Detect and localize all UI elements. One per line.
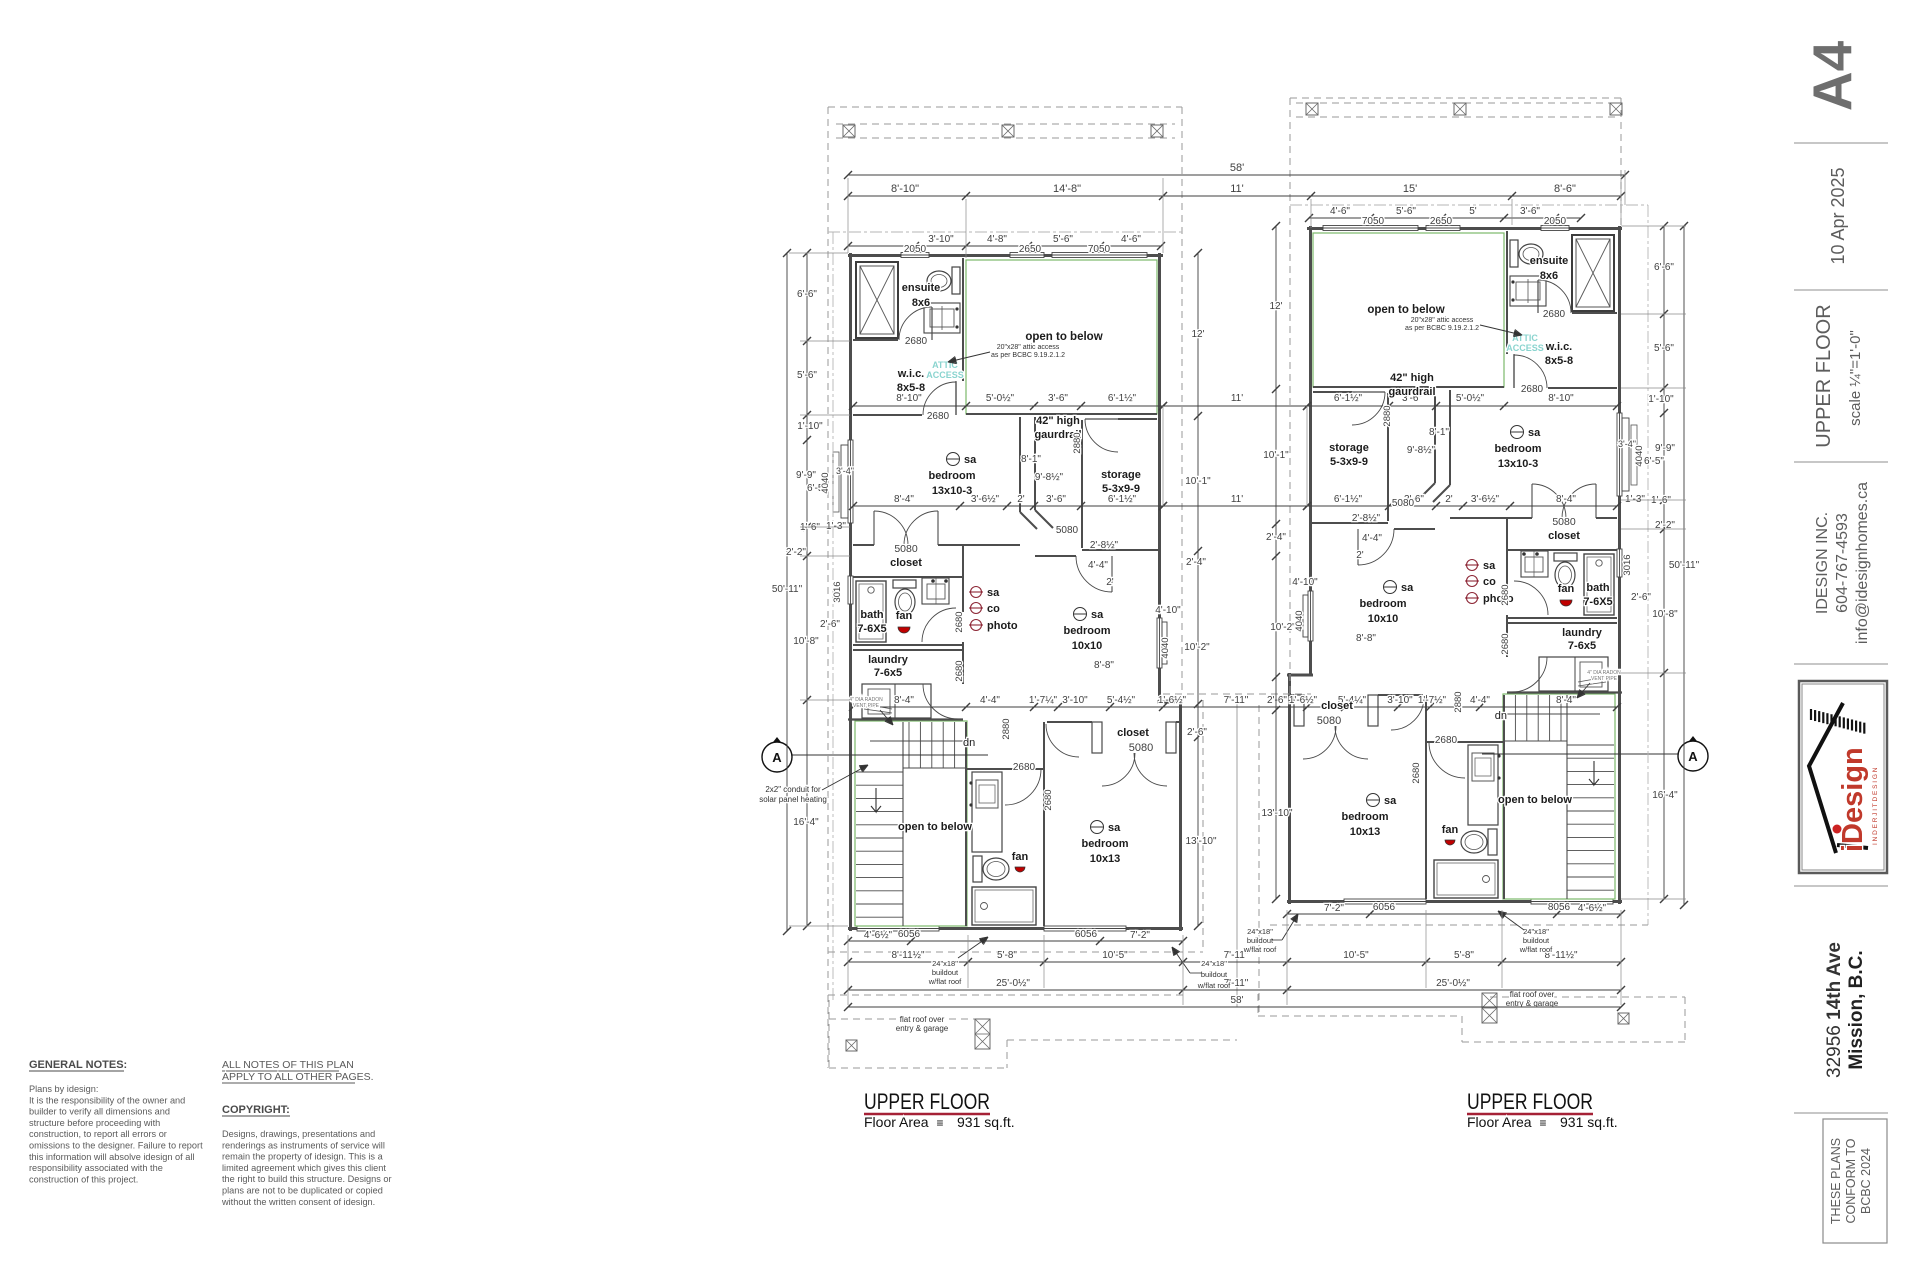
svg-text:2': 2' [1017,494,1025,505]
svg-text:responsibility associated with: responsibility associated with the [29,1163,163,1173]
svg-text:24"x18": 24"x18" [1201,959,1227,968]
dim row 11ft upper [1163,405,1307,407]
svg-text:8'-10": 8'-10" [1548,393,1574,404]
svg-text:2'-4": 2'-4" [1266,532,1286,543]
svg-text:w/flat roof: w/flat roof [1243,945,1277,954]
svg-text:without the written consent of: without the written consent of idesign. [221,1197,375,1207]
svg-text:ACCESS: ACCESS [1506,343,1544,353]
svg-text:ensuite: ensuite [902,282,941,294]
svg-text:10'-8": 10'-8" [1652,609,1678,620]
svg-text:6'-5": 6'-5" [1644,456,1664,467]
svg-text:931 sq.ft.: 931 sq.ft. [957,1114,1015,1130]
svg-text:13x10-3: 13x10-3 [932,485,972,497]
svg-text:sa: sa [1384,795,1397,807]
svg-text:bedroom: bedroom [928,470,975,482]
svg-text:20"x28" attic access: 20"x28" attic access [1411,317,1474,324]
svg-text:2680: 2680 [1013,762,1036,773]
svg-text:4040: 4040 [820,472,831,493]
window top 7050 [1052,253,1147,258]
dim row 11ft lower [1163,505,1307,507]
svg-text:sa: sa [964,454,977,466]
svg-text:8x5-8: 8x5-8 [897,382,925,394]
svg-text:2680: 2680 [1543,309,1566,320]
svg-text:58': 58' [1230,995,1243,1006]
svg-text:closet: closet [1548,530,1580,542]
svg-text:8056: 8056 [1548,902,1571,913]
svg-text:laundry: laundry [1562,627,1603,639]
storage wall top [1118,418,1157,420]
right beam band [1296,102,1616,104]
hall wall right [1034,417,1036,510]
svg-text:builder to verify all dimensio: builder to verify all dimensions and [29,1107,170,1117]
bedroom closet doors [853,544,874,546]
svg-text:VENT PIPE: VENT PIPE [1591,676,1618,682]
svg-text:24"x18": 24"x18" [1247,927,1273,936]
svg-text:A: A [1688,749,1698,764]
svg-text:5'-4½": 5'-4½" [1107,695,1136,706]
svg-text:COPYRIGHT:: COPYRIGHT: [222,1104,290,1116]
svg-text:this information will absolve: this information will absolve idesign of… [29,1152,194,1162]
svg-text:1'-7¼": 1'-7¼" [1029,694,1058,706]
svg-text:4'-4": 4'-4" [1362,533,1382,544]
svg-text:13x10-3: 13x10-3 [1498,458,1538,470]
svg-text:flat roof over: flat roof over [900,1015,945,1024]
stair direction arrow [871,788,881,812]
storage wall left [1081,420,1083,548]
svg-text:3'-4": 3'-4" [1618,439,1636,449]
svg-text:bedroom: bedroom [1341,811,1388,823]
svg-text:6'-1½": 6'-1½" [1108,393,1137,404]
svg-text:15': 15' [1403,183,1417,195]
right beam posts [1306,103,1318,115]
svg-text:closet: closet [890,557,922,569]
svg-text:8'-10": 8'-10" [891,183,919,195]
stair upper flight treads [908,722,910,768]
window right 4040 bedroom2 [1157,618,1162,668]
svg-text:8'-11½": 8'-11½" [891,950,925,961]
dim row left bottom [848,940,1183,942]
svg-text:4040: 4040 [1160,637,1171,658]
svg-text:sa: sa [1108,822,1121,834]
svg-text:buildout: buildout [1201,970,1228,979]
svg-text:ensuite: ensuite [1530,255,1569,267]
storage door [1085,419,1118,452]
window top 2050 [901,253,929,258]
svg-text:10 Apr 2025: 10 Apr 2025 [1828,167,1848,264]
hall wall left [1019,417,1021,512]
dim row left unit windows [848,245,1161,247]
svg-text:2680: 2680 [954,660,965,681]
svg-text:as per BCBC 9.19.2.1.2: as per BCBC 9.19.2.1.2 [1405,325,1479,332]
svg-text:≡: ≡ [1539,1116,1546,1130]
closet bottom wall [853,576,963,578]
svg-text:6056: 6056 [1075,929,1098,940]
window bottom 6056 stair [857,926,939,931]
svg-text:5'-0½": 5'-0½" [986,393,1015,404]
svg-text:10'-2": 10'-2" [1270,622,1296,633]
svg-text:co: co [987,603,1000,615]
svg-text:8'-4": 8'-4" [894,695,914,706]
svg-text:w/flat roof: w/flat roof [1519,945,1553,954]
extension lines right col [1621,225,1686,227]
svg-text:10'-2": 10'-2" [1184,642,1210,653]
laundry walls [962,642,964,650]
svg-text:1'-3": 1'-3" [826,521,846,532]
svg-text:3016: 3016 [1622,554,1633,575]
logo hatch marks [1810,709,1812,720]
svg-text:6'-6": 6'-6" [1654,262,1674,273]
ensuite sink [924,303,960,333]
svg-text:2': 2' [1356,550,1364,561]
bath toilet [893,580,916,588]
svg-text:3'-6½": 3'-6½" [971,494,1000,505]
svg-text:7-6x5: 7-6x5 [874,667,902,679]
svg-text:1'-10": 1'-10" [797,421,823,432]
svg-text:iDesign: iDesign [1837,747,1869,852]
svg-text:renderings as instruments of s: renderings as instruments of service wil… [222,1140,385,1150]
svg-text:A4: A4 [1801,40,1863,111]
svg-text:sa: sa [1483,560,1496,572]
svg-text:open to below: open to below [1367,304,1444,316]
svg-text:13'-10": 13'-10" [1261,808,1292,819]
svg-text:APPLY TO ALL OTHER PAGES.: APPLY TO ALL OTHER PAGES. [222,1071,374,1083]
svg-text:2050: 2050 [1544,216,1567,227]
svg-text:3016: 3016 [832,581,843,602]
svg-text:7050: 7050 [1088,244,1111,255]
svg-text:sa: sa [987,587,1000,599]
svg-text:24"x18": 24"x18" [932,959,958,968]
svg-text:2680: 2680 [1500,633,1511,654]
svg-text:5'-6": 5'-6" [797,370,817,381]
dim col far left 50-11 [786,253,788,931]
dim row y990 [848,989,1621,991]
svg-text:2'-8½": 2'-8½" [1090,540,1119,551]
svg-text:9'-9": 9'-9" [1655,443,1675,454]
svg-text:open to below: open to below [898,821,972,833]
svg-text:A: A [772,750,782,765]
svg-text:storage: storage [1101,469,1141,481]
ensuite toilet [927,271,951,291]
svg-text:5': 5' [1469,206,1477,217]
svg-text:8'-1": 8'-1" [1429,427,1449,438]
stair lower flight treads [856,771,903,773]
svg-text:5'-6": 5'-6" [1396,206,1416,217]
right unit sa co photo legend [1467,560,1478,571]
svg-text:closet: closet [1321,700,1353,712]
svg-text:7'-11": 7'-11" [1224,695,1249,706]
svg-text:UPPER FLOOR: UPPER FLOOR [864,1089,990,1114]
svg-text:4'-6": 4'-6" [1330,206,1350,217]
svg-text:1'-6½": 1'-6½" [1289,695,1318,706]
svg-text:construction, to report all er: construction, to report all errors or [29,1129,167,1139]
svg-text:w/flat roof: w/flat roof [928,977,962,986]
svg-text:4'-4": 4'-4" [1088,560,1108,571]
svg-text:1'-7½": 1'-7½" [1418,695,1447,706]
svg-text:8'-6": 8'-6" [1554,183,1576,195]
svg-text:24"x18": 24"x18" [1523,927,1549,936]
svg-text:UPPER FLOOR: UPPER FLOOR [1467,1089,1593,1114]
exterior wall right lower [1179,700,1182,931]
svg-text:10x13: 10x13 [1350,826,1381,838]
svg-text:co: co [1483,576,1496,588]
ensuite wall bottom [853,339,898,341]
svg-text:8'-10": 8'-10" [896,393,922,404]
bath2 counter [972,772,1002,852]
svg-text:dn: dn [1495,710,1507,722]
window left 3016 bath [848,576,853,604]
left unit sa co photo legend [971,587,982,598]
extension lines left col [789,252,848,254]
svg-text:8x6: 8x6 [1540,270,1558,282]
svg-text:8x5-8: 8x5-8 [1545,355,1573,367]
open to below green box [966,260,1157,414]
svg-text:storage: storage [1329,442,1369,454]
svg-text:11': 11' [1231,494,1243,505]
svg-text:6056: 6056 [898,929,921,940]
stairwell green box [855,721,967,926]
svg-text:3'-6": 3'-6" [1520,206,1540,217]
svg-text:4'-6": 4'-6" [1121,234,1141,245]
svg-text:BCBC 2024: BCBC 2024 [1859,1148,1873,1214]
stair dn line [870,740,965,742]
svg-text:3'-10": 3'-10" [1062,695,1088,706]
svg-text:16'-4": 16'-4" [1652,790,1678,801]
svg-text:VENT PIPE: VENT PIPE [853,703,880,709]
bath2 walls [965,722,967,926]
exterior wall step buildout [1157,701,1183,704]
svg-text:6'-1½": 6'-1½" [1334,494,1363,505]
dim col right spans [1663,226,1665,899]
svg-text:the right to build this struct: the right to build this structure. Desig… [222,1174,392,1184]
extension lines top [847,178,849,253]
svg-text:6'-1½": 6'-1½" [1334,393,1363,404]
svg-text:bath: bath [1586,582,1610,594]
svg-text:2': 2' [1106,577,1114,588]
svg-text:5080: 5080 [1056,525,1079,536]
svg-text:2'-6": 2'-6" [1267,695,1287,706]
svg-text:8'-4": 8'-4" [894,494,914,505]
dim row y962 [848,961,1621,963]
svg-text:2'-4": 2'-4" [1186,557,1206,568]
svg-text:13'-10": 13'-10" [1185,836,1216,847]
svg-text:4040: 4040 [1294,610,1305,631]
svg-text:construction of this project.: construction of this project. [29,1174,138,1184]
svg-text:14'-8": 14'-8" [1053,183,1081,195]
svg-text:2'-6": 2'-6" [1187,727,1207,738]
section marker A right [1679,736,1707,754]
svg-text:Mission, B.C.: Mission, B.C. [1846,950,1867,1069]
right roof dashed outline [1290,97,1621,99]
svg-text:Designs, drawings, presentatio: Designs, drawings, presentations and [222,1129,375,1139]
svg-text:4'-10": 4'-10" [1292,577,1318,588]
svg-text:9'-8½": 9'-8½" [1035,472,1064,483]
dim row mid y404 [853,405,1163,407]
laundry machines [862,684,931,718]
svg-text:structure before proceeding wi: structure before proceeding with [29,1118,160,1128]
svg-text:12': 12' [1191,329,1204,340]
svg-text:w/flat roof: w/flat roof [1197,981,1231,990]
svg-text:2'-6": 2'-6" [1631,592,1651,603]
bath walls [962,577,964,608]
svg-text:bath: bath [860,609,884,621]
svg-text:4'-6½": 4'-6½" [1578,903,1607,914]
left garage dashed outline [828,1000,830,1068]
svg-text:4'-4": 4'-4" [980,695,1000,706]
dim row spans top [848,195,1621,197]
window top 2650 [1010,253,1044,258]
bedroom3 closet walls [1047,721,1092,723]
svg-text:plans are not to be duplicated: plans are not to be duplicated or copied [222,1186,383,1196]
svg-text:2680: 2680 [927,411,950,422]
svg-text:7'-2": 7'-2" [1324,903,1344,914]
bath tub [856,581,886,642]
svg-text:1'-3": 1'-3" [1625,494,1645,505]
dim col left-mid [1197,253,1199,926]
svg-text:8'-8": 8'-8" [1356,633,1376,644]
svg-text:10'-5": 10'-5" [1102,950,1128,961]
left beam posts [843,125,855,137]
svg-text:fan: fan [1442,824,1459,836]
extension lines mid gap [1162,406,1164,506]
logo i dot [1833,825,1842,834]
left garage posts [846,1040,857,1051]
svg-text:3'-6½": 3'-6½" [1471,494,1500,505]
svg-text:GENERAL NOTES:: GENERAL NOTES: [29,1059,127,1071]
left roof dashed outline [828,106,1182,108]
svg-text:6'-1½": 6'-1½" [1108,494,1137,505]
svg-text:2650: 2650 [1019,244,1042,255]
ensuite shower [856,262,898,338]
svg-text:2650: 2650 [1430,216,1453,227]
svg-text:6056: 6056 [1373,902,1396,913]
bedroom3 closet doors [1102,753,1135,786]
svg-text:5-3x9-9: 5-3x9-9 [1102,483,1140,495]
dim row mid y506 [853,505,1163,507]
svg-text:11': 11' [1230,183,1244,195]
svg-text:9'-9": 9'-9" [796,470,816,481]
section marker A left [763,737,791,755]
svg-text:11': 11' [1231,393,1243,404]
svg-text:42" high: 42" high [1036,415,1080,427]
svg-text:16'-4": 16'-4" [793,817,819,828]
wic wall bottom [853,414,922,416]
dim col left spans [806,253,808,926]
BCBC box [1823,1119,1887,1243]
window bottom 6056 bedroom [1044,926,1126,931]
svg-text:buildout: buildout [1523,936,1550,945]
svg-text:8'-4": 8'-4" [1556,494,1576,505]
title block separators [1794,142,1888,144]
svg-text:fan: fan [896,610,913,622]
svg-text:3'-4": 3'-4" [836,466,854,476]
right garage posts [1618,1013,1629,1024]
idesign logo box [1799,681,1887,873]
extension lines bottom [967,935,969,988]
svg-text:open to below: open to below [1025,331,1102,343]
stair edge [902,722,904,926]
bedroom3 door [1046,724,1079,757]
svg-text:Floor Area: Floor Area [1467,1114,1532,1130]
logo roof line [1809,703,1843,853]
left dashdot property line [832,232,834,1000]
section line A-A right [1482,753,1678,755]
svg-text:10x10: 10x10 [1072,640,1103,652]
svg-text:buildout: buildout [1247,936,1274,945]
svg-text:bedroom: bedroom [1081,838,1128,850]
dim row right bottom [1287,913,1621,915]
svg-text:8x6: 8x6 [912,297,930,309]
svg-text:1'-6": 1'-6" [800,522,820,533]
svg-text:2680: 2680 [954,611,965,632]
svg-text:2680: 2680 [1500,584,1511,605]
svg-text:sa: sa [1401,582,1414,594]
svg-text:4'-4": 4'-4" [1470,695,1490,706]
svg-text:10x13: 10x13 [1090,853,1121,865]
svg-text:25'-0½": 25'-0½" [1436,978,1470,989]
bath2 door [1005,769,1041,805]
svg-text:fan: fan [1558,583,1575,595]
svg-text:Floor Area: Floor Area [864,1114,929,1130]
svg-text:2'-8½": 2'-8½" [1352,513,1381,524]
dim row shared y707 [853,706,1617,708]
svg-text:5080: 5080 [894,543,918,555]
svg-text:6'-6": 6'-6" [797,289,817,300]
svg-text:It is the responsibility of th: It is the responsibility of the owner an… [29,1095,185,1105]
left lower dashed [828,994,1183,996]
svg-text:7'-2": 7'-2" [1130,930,1150,941]
svg-text:7-6x5: 7-6x5 [1568,640,1596,652]
svg-text:Plans by idesign:: Plans by idesign: [29,1084,98,1094]
ensuite door [899,307,932,340]
right lower dashed [1270,924,1648,926]
svg-text:10'-1": 10'-1" [1263,450,1289,461]
svg-text:10'-8": 10'-8" [793,636,819,647]
svg-text:entry & garage: entry & garage [896,1024,949,1033]
bath sink [922,578,949,604]
laundry door [923,684,958,719]
svg-text:5080: 5080 [1317,715,1341,727]
svg-text:25'-0½": 25'-0½" [996,978,1030,989]
svg-text:5'-6": 5'-6" [1053,234,1073,245]
svg-text:58': 58' [1230,162,1244,174]
svg-text:w.i.c.: w.i.c. [1545,341,1573,353]
right garage dashed outline [1257,994,1259,1016]
wall wic right [962,258,964,381]
svg-text:2880: 2880 [1001,718,1012,739]
svg-text:5-3x9-9: 5-3x9-9 [1330,456,1368,468]
window left 4040 bedroom [848,440,853,523]
svg-text:2880: 2880 [1453,691,1464,712]
bedroom2 door [1076,556,1112,592]
svg-text:remain the property of idesign: remain the property of idesign. This is … [222,1152,384,1162]
svg-text:fan: fan [1012,851,1029,863]
svg-text:3'-6": 3'-6" [1048,393,1068,404]
dim col right 50-11 [1683,226,1685,905]
svg-text:1'-6": 1'-6" [1651,495,1671,506]
svg-text:604-767-4593: 604-767-4593 [1834,513,1851,613]
hall wall vertical mid [962,545,964,577]
svg-text:IDESIGN INC.: IDESIGN INC. [1814,512,1831,614]
svg-text:2880: 2880 [1072,432,1083,453]
svg-text:2880: 2880 [1382,405,1393,426]
svg-text:5080: 5080 [1129,742,1153,754]
bedroom2 top wall [1035,555,1076,557]
svg-text:50'-11": 50'-11" [1669,560,1700,571]
exterior wall top [848,254,1163,257]
right unit mirrored geometry [1287,226,1637,905]
svg-text:32956 14th Ave: 32956 14th Ave [1824,942,1845,1078]
left beam band [836,123,1175,125]
